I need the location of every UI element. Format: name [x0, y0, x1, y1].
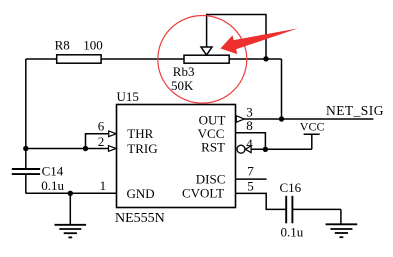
node THR branch junction — [83, 146, 88, 151]
svg-text:Rb3: Rb3 — [173, 64, 195, 79]
wire left vertical upper (R8 to C14) — [25, 59, 27, 168]
svg-text:C16: C16 — [280, 180, 302, 195]
node OUT junction — [279, 116, 284, 121]
ground left — [55, 225, 87, 238]
svg-text:U15: U15 — [117, 89, 139, 104]
ground right — [326, 224, 358, 237]
wire ground drop right — [340, 209, 342, 224]
wire Rb3 right lead — [229, 58, 281, 60]
potentiometer Rb3 body — [184, 55, 229, 63]
pin 4 input arrow — [245, 146, 251, 153]
wire C16 to ground — [292, 208, 341, 210]
svg-text:2: 2 — [98, 134, 105, 149]
svg-text:6: 6 — [98, 118, 105, 133]
svg-text:DISC: DISC — [196, 172, 226, 187]
capacitor C14 plates — [12, 169, 40, 174]
wire R8 to Rb3 — [101, 58, 184, 60]
svg-text:R8: R8 — [55, 37, 70, 52]
svg-text:7: 7 — [247, 164, 254, 179]
annotation red circle around Rb3 — [158, 16, 247, 104]
wire TRIG horizontal — [26, 148, 109, 150]
svg-text:1: 1 — [100, 178, 107, 193]
svg-text:RST: RST — [201, 139, 225, 154]
svg-text:0.1u: 0.1u — [281, 225, 304, 240]
wire OUT to NET_SIG — [244, 118, 373, 120]
svg-text:TRIG: TRIG — [127, 141, 157, 156]
svg-text:CVOLT: CVOLT — [182, 186, 224, 201]
wire RST to VCC — [251, 148, 312, 150]
node GND junction — [68, 191, 73, 196]
pin 6 input arrow — [109, 131, 117, 137]
svg-text:NET_SIG: NET_SIG — [326, 103, 384, 118]
svg-text:100: 100 — [83, 37, 103, 52]
svg-text:THR: THR — [127, 126, 153, 141]
node TRIG left junction — [23, 146, 28, 151]
wire top feedback — [206, 15, 266, 59]
wire pin 8 VCC — [236, 133, 266, 150]
wire drop to OUT net — [281, 59, 283, 119]
wire Rb3 wiper stem — [206, 15, 208, 48]
pin 3 output arrow — [236, 116, 244, 122]
capacitor C16 plates — [286, 196, 292, 224]
svg-text:GND: GND — [127, 186, 155, 201]
IC U15 body — [117, 105, 236, 208]
annotation red arrow pointing at wiper — [220, 28, 298, 54]
svg-text:C14: C14 — [42, 163, 64, 178]
power symbol VCC — [304, 134, 320, 149]
wire ground drop left — [69, 193, 71, 225]
wire pin 7 stub — [236, 178, 267, 180]
node top feedback junction — [263, 56, 268, 61]
svg-text:0.1u: 0.1u — [41, 178, 64, 193]
wire left vertical lower (C14 to GND rail) — [25, 174, 27, 193]
wire R8 left lead — [26, 58, 57, 60]
pin 2 input arrow — [109, 146, 117, 152]
svg-text:VCC: VCC — [300, 120, 325, 134]
wire pin 5 CVOLT to C16 — [236, 193, 286, 209]
svg-text:50K: 50K — [171, 78, 194, 93]
wire GND rail to pin 1 — [26, 192, 117, 194]
svg-text:NE555N: NE555N — [115, 211, 165, 226]
svg-text:8: 8 — [246, 118, 253, 133]
pin 4 inversion bubble — [237, 145, 245, 153]
svg-text:5: 5 — [247, 179, 254, 194]
resistor R8 — [57, 55, 101, 63]
node VCC/RST junction — [263, 147, 268, 152]
wire THR branch — [86, 134, 109, 149]
potentiometer Rb3 wiper arrow — [201, 47, 212, 55]
